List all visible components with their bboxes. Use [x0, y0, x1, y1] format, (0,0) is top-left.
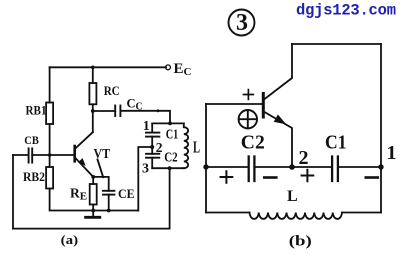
svg-text:C2: C2: [164, 151, 178, 166]
node: tank node 2: [150, 145, 154, 149]
resistor RE: [90, 184, 97, 205]
wire: (b) middle rail left: [206, 166, 248, 168]
svg-text:dgjs123.com: dgjs123.com: [296, 1, 396, 19]
inductor L coil (a): [184, 123, 188, 168]
wire: base lead: [32, 154, 73, 156]
capacitor CB right plate: [31, 148, 33, 162]
resistor RB2: [46, 167, 53, 189]
wire: top supply rail: [50, 66, 166, 68]
capacitor C2 (b) left plate: [248, 157, 250, 182]
wire: CB input from left feedback column: [13, 154, 29, 156]
inductor L coil (b): [250, 213, 343, 219]
svg-text:1: 1: [387, 142, 397, 164]
node: small dot on Cc wire: [157, 109, 160, 112]
terminal Ec circle: [166, 65, 171, 70]
capacitor C1 bottom plate: [146, 136, 159, 138]
wire: Cc to tank top: [120, 111, 170, 124]
svg-text:RC: RC: [104, 84, 120, 98]
transistor VT emitter arrow: [78, 158, 86, 166]
svg-text:CE: CE: [118, 186, 135, 201]
svg-text:VT: VT: [94, 146, 111, 161]
polarity + above base: [244, 90, 254, 100]
svg-text:L: L: [193, 137, 200, 156]
transistor (b) emitter: [265, 112, 293, 167]
wire: (b) right column: [380, 44, 382, 213]
wire: RB2 bottom to emitter ground rail: [50, 189, 139, 211]
wire: RE bottom: [92, 205, 94, 211]
capacitor C2 (b) right plate: [253, 157, 255, 182]
svg-text:(b): (b): [289, 234, 312, 250]
wire: emitter node to CE top: [93, 177, 109, 191]
transistor (b) collector: [264, 44, 292, 100]
figure number badge circle: [229, 10, 255, 36]
wire: CE bottom: [108, 195, 110, 211]
wire: (b) top rail: [292, 43, 381, 45]
capacitor CE bottom plate: [103, 194, 114, 196]
wire: emitter node to RE top: [92, 177, 94, 184]
wire: base node to RB2 top: [49, 155, 51, 167]
capacitor C1 top plate: [146, 132, 159, 134]
svg-text:(a): (a): [61, 232, 78, 247]
wire: left feedback column: [12, 155, 14, 229]
node: collector / Cc junction: [91, 109, 95, 113]
transistor (b) emitter arrow: [274, 115, 287, 125]
current source circle with plus: [239, 110, 257, 128]
node: tank top junction: [168, 122, 172, 126]
wire: bottom feedback rail: [13, 228, 170, 230]
polarity - right of C2: [264, 176, 276, 179]
svg-text:2: 2: [299, 147, 309, 169]
node: (b) left node: [203, 164, 208, 169]
capacitor CE top plate: [103, 190, 114, 192]
svg-text:C1: C1: [325, 132, 347, 154]
svg-text:L: L: [287, 188, 298, 205]
svg-text:C2: C2: [241, 132, 265, 154]
node: base junction: [48, 153, 52, 157]
wire: collector vertical: [92, 111, 94, 132]
wire: tank left middle segment: [151, 137, 153, 154]
transistor VT base bar: [73, 146, 76, 161]
node: CE bottom junction: [107, 209, 111, 213]
capacitor C2 top plate: [146, 153, 159, 155]
capacitor C2 bottom plate: [146, 157, 159, 159]
transistor VT emitter line: [76, 158, 94, 177]
wire: (b) left column: [205, 104, 207, 213]
capacitor C1 (b) left plate: [331, 157, 333, 182]
node: tank bottom junction: [168, 166, 172, 170]
node: (b) node 1: [378, 164, 383, 169]
polarity - right of C1: [366, 176, 378, 179]
node: RE bottom junction: [91, 209, 95, 213]
capacitor CB left plate: [28, 148, 30, 162]
wire: (b) middle rail centre: [255, 166, 331, 168]
wire: RB1 branch top: [49, 67, 51, 102]
wire: tank left bottom segment: [151, 158, 153, 169]
resistor RB1: [46, 103, 53, 125]
node: emitter junction: [91, 175, 95, 179]
node: RC top junction: [91, 66, 95, 70]
svg-text:3: 3: [236, 10, 248, 36]
svg-text:C1: C1: [166, 127, 179, 142]
wire: RC branch top: [92, 67, 94, 83]
wire: RB1 bottom to base node: [49, 124, 51, 155]
wire: tank bottom: [152, 167, 184, 169]
wire: tank top: [152, 122, 184, 124]
wire: (b) bottom rail left: [206, 212, 250, 214]
wire: node 2 branch to ground rail: [138, 147, 152, 211]
wire: tank left top segment: [151, 123, 153, 132]
ground: [92, 211, 94, 217]
VT pointer line: [98, 160, 104, 178]
wire: (b) bottom rail right: [342, 212, 381, 214]
wire: (b) base lead: [206, 103, 262, 105]
svg-text:2: 2: [156, 140, 163, 155]
wire: (b) middle rail right: [339, 166, 381, 168]
wire: tank bottom to feedback rail: [169, 168, 171, 228]
capacitor C1 (b) right plate: [337, 157, 339, 182]
polarity + right of node 2: [302, 170, 314, 182]
wire: collector node to Cc: [93, 110, 115, 112]
wire: RC bottom to collector node: [92, 104, 94, 111]
wire: collector diagonal to transistor bar: [76, 132, 93, 148]
transistor (b) base bar: [262, 94, 265, 118]
capacitor Cc right plate: [119, 106, 121, 117]
polarity + left of C2: [221, 171, 233, 183]
node: (b) node 2: [289, 164, 295, 170]
svg-text:CB: CB: [24, 133, 39, 147]
resistor RC: [89, 83, 96, 104]
capacitor Cc left plate: [114, 106, 116, 117]
svg-text:RB2: RB2: [23, 169, 45, 184]
svg-text:RB1: RB1: [26, 102, 47, 117]
svg-text:3: 3: [142, 161, 149, 176]
